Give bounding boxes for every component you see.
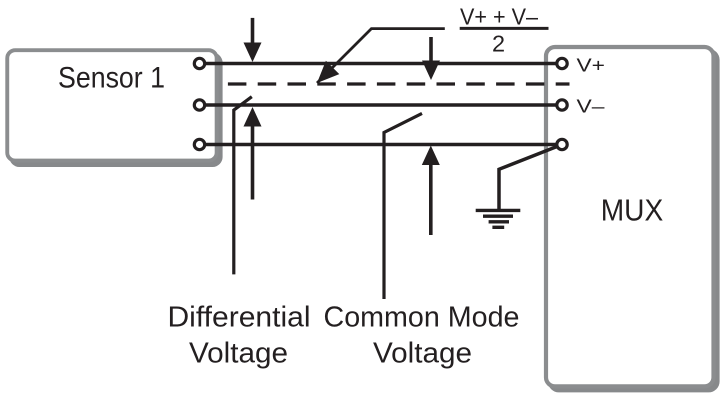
svg-text:Voltage: Voltage	[373, 337, 472, 369]
label Common Mode Voltage	[324, 301, 520, 369]
MUX terminal V-	[557, 100, 567, 110]
formula (V+ + V-)/2	[460, 4, 549, 57]
svg-text:MUX: MUX	[601, 194, 664, 228]
sensor terminal 3	[194, 139, 204, 149]
svg-text:V–: V–	[577, 96, 606, 117]
svg-text:2: 2	[492, 31, 505, 57]
common-mode voltage leader line	[384, 113, 422, 299]
differential top arrow (down onto V+ wire)	[244, 18, 262, 62]
MUX terminal 3	[557, 139, 567, 149]
common-mode down arrow (onto dashed line)	[422, 37, 440, 80]
sensor terminal 1	[194, 58, 204, 68]
differential bottom arrow (up onto V- wire)	[244, 107, 262, 200]
sensor box U-Sensor1	[7, 50, 222, 167]
label Differential Voltage	[168, 301, 311, 369]
svg-text:V+ + V–: V+ + V–	[460, 4, 539, 30]
wire diagonal to ground	[499, 147, 557, 211]
sensor terminal 2	[194, 100, 204, 110]
svg-text:V+: V+	[577, 54, 606, 75]
leader from formula to dashed line	[317, 29, 445, 83]
differential voltage leader line	[234, 97, 252, 275]
svg-text:Sensor 1: Sensor 1	[58, 62, 165, 95]
wire V- middle	[200, 103, 563, 107]
dashed common-mode midpoint line	[228, 82, 570, 85]
svg-text:Voltage: Voltage	[189, 337, 288, 369]
svg-text:Differential: Differential	[168, 301, 311, 333]
wire bottom (to ground)	[200, 143, 563, 147]
common-mode up arrow (onto bottom wire)	[422, 146, 440, 236]
ground symbol	[476, 210, 521, 227]
MUX box U-MUX	[546, 47, 720, 392]
MUX terminal V+	[557, 58, 567, 68]
svg-text:Common Mode: Common Mode	[324, 301, 520, 333]
wire V+ top	[200, 62, 563, 66]
